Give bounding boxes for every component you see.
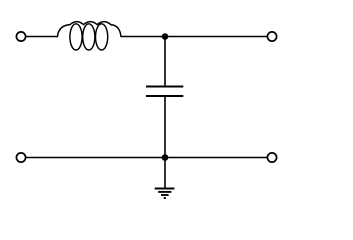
wire: node A to output terminal <box>165 36 267 38</box>
wire: capacitor bottom plate down to node B <box>164 96 166 158</box>
wire: bottom rail right, node B to terminal <box>165 157 267 159</box>
capacitor C1 <box>146 87 183 97</box>
node B (bottom junction dot) <box>162 154 169 161</box>
node A (top junction dot) <box>162 33 169 40</box>
wire: inductor to node A <box>121 36 165 38</box>
wire: input terminal to inductor <box>26 36 58 38</box>
inductor L1 <box>58 22 121 50</box>
terminal T3 (input bottom, open circle) <box>16 153 25 162</box>
wire: bottom rail left, terminal to node B <box>26 157 165 159</box>
wire: node A down to capacitor top plate <box>164 37 166 87</box>
terminal T2 (output top, open circle) <box>267 32 276 41</box>
terminal T4 (output bottom, open circle) <box>267 153 276 162</box>
terminal T1 (input top, open circle) <box>16 32 25 41</box>
wire: node B down to ground <box>164 158 166 189</box>
ground <box>155 189 175 199</box>
